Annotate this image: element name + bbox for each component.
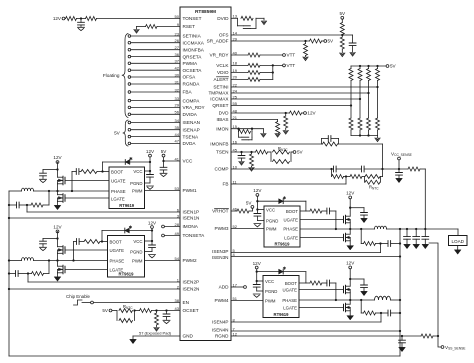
svg-text:27: 27 <box>175 45 180 50</box>
svg-text:PGND: PGND <box>130 181 142 186</box>
svg-text:PWM4: PWM4 <box>214 298 228 303</box>
svg-text:12V: 12V <box>307 111 316 116</box>
svg-text:LOAD: LOAD <box>451 239 464 244</box>
svg-text:35: 35 <box>175 125 180 130</box>
svg-text:36: 36 <box>175 52 180 57</box>
svg-text:LGATE: LGATE <box>111 196 125 201</box>
svg-text:ALERT: ALERT <box>213 77 228 82</box>
svg-text:PHASE: PHASE <box>283 226 298 231</box>
svg-text:ISEN1N: ISEN1N <box>183 216 200 221</box>
svg-text:SR_ADDF: SR_ADDF <box>207 39 229 44</box>
svg-text:COMPA: COMPA <box>183 98 201 103</box>
svg-text:37: 37 <box>175 59 180 64</box>
svg-text:57 (Exposed Pad): 57 (Exposed Pad) <box>139 330 172 335</box>
svg-text:PWM: PWM <box>266 226 277 231</box>
svg-text:RT9619: RT9619 <box>274 312 290 317</box>
svg-text:41: 41 <box>175 156 180 161</box>
svg-text:IMONA: IMONA <box>183 224 199 229</box>
svg-text:SETINIA: SETINIA <box>183 34 202 39</box>
svg-text:12V: 12V <box>346 191 355 196</box>
svg-text:53: 53 <box>175 186 180 191</box>
svg-text:12: 12 <box>233 331 238 336</box>
svg-text:IBIAS: IBIAS <box>217 117 229 122</box>
svg-text:COMP: COMP <box>214 167 228 172</box>
svg-text:UGATE: UGATE <box>284 217 299 222</box>
svg-text:NTC: NTC <box>281 148 288 152</box>
svg-text:12V: 12V <box>148 220 157 225</box>
svg-text:TMPMAX: TMPMAX <box>208 91 229 96</box>
svg-text:5V: 5V <box>246 200 253 205</box>
svg-text:OFSA: OFSA <box>183 75 197 80</box>
svg-text:22: 22 <box>233 82 238 87</box>
svg-text:38: 38 <box>175 298 180 303</box>
svg-text:PWM3: PWM3 <box>214 226 228 231</box>
svg-text:32: 32 <box>175 87 180 92</box>
svg-text:GND: GND <box>183 334 194 339</box>
svg-text:VCC: VCC <box>133 169 142 174</box>
svg-text:15: 15 <box>233 124 238 129</box>
svg-text:5V: 5V <box>102 308 109 313</box>
svg-text:30: 30 <box>175 72 180 77</box>
svg-text:21: 21 <box>233 115 238 120</box>
svg-text:VCC: VCC <box>265 279 274 284</box>
svg-text:5V: 5V <box>161 149 168 154</box>
svg-text:18: 18 <box>233 61 238 66</box>
svg-text:PWM2: PWM2 <box>183 258 197 263</box>
svg-text:26: 26 <box>175 38 180 43</box>
svg-text:Floating: Floating <box>103 73 120 78</box>
svg-text:23: 23 <box>175 31 180 36</box>
svg-text:31: 31 <box>175 79 180 84</box>
svg-text:IMONFB: IMONFB <box>210 142 228 147</box>
svg-text:TONSET: TONSET <box>183 16 202 21</box>
svg-text:RT8859M: RT8859M <box>195 9 216 15</box>
svg-text:RT9619: RT9619 <box>119 203 135 208</box>
svg-text:52: 52 <box>233 224 238 229</box>
svg-text:5V: 5V <box>328 39 335 44</box>
svg-text:OFS: OFS <box>219 33 229 38</box>
svg-text:12V: 12V <box>53 16 62 21</box>
svg-text:ICCMAXA: ICCMAXA <box>183 40 205 45</box>
svg-text:PWM: PWM <box>132 188 143 193</box>
svg-text:DVD: DVD <box>219 111 230 116</box>
svg-text:12V: 12V <box>253 188 262 193</box>
svg-text:16: 16 <box>233 139 238 144</box>
svg-text:LGATE: LGATE <box>283 305 297 310</box>
svg-text:ISENAN: ISENAN <box>183 120 200 125</box>
svg-text:55: 55 <box>233 101 238 106</box>
svg-text:24: 24 <box>233 88 238 93</box>
svg-text:PGND: PGND <box>130 249 142 254</box>
svg-text:UGATE: UGATE <box>110 248 125 253</box>
svg-text:OCSET: OCSET <box>183 308 199 313</box>
svg-text:SETINI: SETINI <box>213 85 228 90</box>
svg-text:DVIDA: DVIDA <box>183 112 198 117</box>
svg-text:PWM: PWM <box>265 298 276 303</box>
svg-text:ISEN4P: ISEN4P <box>212 320 228 325</box>
svg-text:PHASE: PHASE <box>282 298 297 303</box>
svg-text:49: 49 <box>175 231 180 236</box>
svg-text:RT9619: RT9619 <box>119 271 135 276</box>
svg-text:48: 48 <box>233 108 238 113</box>
svg-text:50: 50 <box>175 14 180 19</box>
svg-text:ISEN3N: ISEN3N <box>212 255 229 260</box>
svg-text:BOOT: BOOT <box>111 169 124 174</box>
svg-text:RT9619: RT9619 <box>275 241 291 246</box>
svg-text:5V: 5V <box>297 150 304 155</box>
svg-text:TSENA: TSENA <box>183 134 200 139</box>
svg-text:UGATE: UGATE <box>111 178 126 183</box>
svg-text:PGND: PGND <box>265 289 277 294</box>
svg-text:47: 47 <box>175 139 180 144</box>
svg-text:13: 13 <box>233 14 238 19</box>
svg-text:PWMA: PWMA <box>183 61 198 66</box>
svg-text:33: 33 <box>175 96 180 101</box>
svg-text:PWM1: PWM1 <box>183 188 197 193</box>
svg-text:BOOT: BOOT <box>285 281 298 286</box>
svg-text:VSS_SENSE: VSS_SENSE <box>445 345 466 351</box>
svg-text:RGNDA: RGNDA <box>183 82 201 87</box>
svg-text:NTC: NTC <box>372 186 379 190</box>
svg-text:IMONFBA: IMONFBA <box>183 47 205 52</box>
svg-text:PHASE: PHASE <box>111 189 126 194</box>
svg-text:Chip Enable: Chip Enable <box>66 294 90 299</box>
svg-text:43: 43 <box>175 306 180 311</box>
svg-text:VDIO: VDIO <box>217 70 229 75</box>
svg-text:ISEN4N: ISEN4N <box>212 328 229 333</box>
svg-text:29: 29 <box>175 103 180 108</box>
svg-text:ISEN2P: ISEN2P <box>183 280 200 285</box>
svg-text:IMON: IMON <box>216 126 228 131</box>
svg-text:VCLK: VCLK <box>216 63 229 68</box>
svg-text:10: 10 <box>233 164 238 169</box>
svg-text:19: 19 <box>233 68 238 73</box>
svg-text:OCSETA: OCSETA <box>183 68 203 73</box>
svg-text:12V: 12V <box>146 149 155 154</box>
svg-text:PWM: PWM <box>132 258 143 263</box>
svg-text:PGND: PGND <box>266 218 278 223</box>
svg-text:QRSETA: QRSETA <box>183 54 203 59</box>
svg-text:VTT: VTT <box>287 63 296 68</box>
svg-text:VCC_SENSE: VCC_SENSE <box>391 151 413 157</box>
svg-text:5V: 5V <box>339 11 346 16</box>
svg-text:20: 20 <box>233 75 238 80</box>
svg-text:ICCMAX: ICCMAX <box>210 97 229 102</box>
svg-text:51: 51 <box>233 296 238 301</box>
svg-text:FBA: FBA <box>183 90 193 95</box>
svg-text:DVID: DVID <box>217 16 229 21</box>
svg-text:ISEN3P: ISEN3P <box>212 249 228 254</box>
svg-text:29: 29 <box>233 36 238 41</box>
svg-text:UGATE: UGATE <box>283 287 298 292</box>
svg-text:VR_RDY: VR_RDY <box>209 53 229 58</box>
svg-text:17: 17 <box>233 282 238 287</box>
svg-text:QRSET: QRSET <box>212 103 228 108</box>
svg-text:TONSETA: TONSETA <box>183 233 206 238</box>
svg-text:14: 14 <box>233 30 238 35</box>
svg-text:44: 44 <box>175 132 180 137</box>
svg-text:RSET: RSET <box>183 24 196 29</box>
svg-text:VRA_RDY: VRA_RDY <box>183 105 206 110</box>
svg-text:28: 28 <box>175 222 180 227</box>
svg-text:34: 34 <box>175 118 180 123</box>
svg-text:LGATE: LGATE <box>284 235 298 240</box>
svg-text:5V: 5V <box>390 64 397 69</box>
svg-text:RGND: RGND <box>215 333 229 338</box>
svg-text:40: 40 <box>233 50 238 55</box>
svg-text:12V: 12V <box>53 225 62 230</box>
svg-text:5V: 5V <box>114 131 121 136</box>
svg-text:NTC: NTC <box>126 306 133 310</box>
svg-text:VCC: VCC <box>266 207 275 212</box>
svg-text:42: 42 <box>175 66 180 71</box>
svg-text:ISENAP: ISENAP <box>183 127 200 132</box>
svg-text:56: 56 <box>175 110 180 115</box>
svg-text:ISEN2N: ISEN2N <box>183 287 200 292</box>
svg-text:EN: EN <box>183 300 190 305</box>
svg-text:45: 45 <box>233 147 238 152</box>
svg-text:FB: FB <box>223 182 229 187</box>
svg-text:PHASE: PHASE <box>110 258 125 263</box>
svg-text:BOOT: BOOT <box>110 239 123 244</box>
svg-text:VTT: VTT <box>287 53 296 58</box>
svg-text:54: 54 <box>175 256 180 261</box>
svg-text:VCC: VCC <box>183 159 194 164</box>
svg-text:ADD: ADD <box>219 285 230 290</box>
svg-text:12V: 12V <box>346 261 355 266</box>
svg-text:VCC: VCC <box>133 239 142 244</box>
svg-text:12V: 12V <box>53 155 62 160</box>
svg-text:DVDA: DVDA <box>183 141 197 146</box>
svg-text:VRHOT: VRHOT <box>212 209 229 214</box>
svg-text:ISEN1P: ISEN1P <box>183 210 200 215</box>
svg-text:12V: 12V <box>253 261 262 266</box>
svg-text:25: 25 <box>233 94 238 99</box>
svg-text:TSEN: TSEN <box>216 150 229 155</box>
svg-text:BOOT: BOOT <box>286 209 299 214</box>
